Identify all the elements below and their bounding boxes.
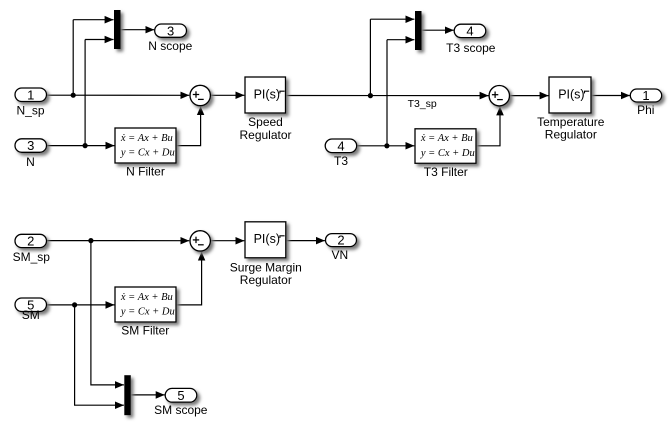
svg-text:Regulator: Regulator bbox=[545, 128, 597, 142]
svg-text:SM Filter: SM Filter bbox=[121, 324, 169, 338]
svg-text:PI(s): PI(s) bbox=[254, 87, 280, 101]
svg-text:T3: T3 bbox=[334, 154, 348, 168]
svg-text:y = Cx + Du: y = Cx + Du bbox=[120, 148, 175, 159]
svg-text:N scope: N scope bbox=[148, 39, 192, 53]
svg-text:T3 Filter: T3 Filter bbox=[424, 165, 468, 179]
svg-text:Regulator: Regulator bbox=[240, 273, 292, 287]
svg-text:N_sp: N_sp bbox=[16, 103, 44, 117]
svg-text:2: 2 bbox=[27, 234, 34, 249]
svg-text:SM_sp: SM_sp bbox=[13, 250, 51, 264]
svg-text:1: 1 bbox=[27, 87, 34, 102]
svg-text:ẋ = Ax + Bu: ẋ = Ax + Bu bbox=[420, 133, 473, 144]
svg-text:T3_sp: T3_sp bbox=[408, 98, 437, 110]
svg-text:VN: VN bbox=[331, 248, 348, 262]
svg-text:2: 2 bbox=[337, 233, 344, 248]
svg-text:y = Cx + Du: y = Cx + Du bbox=[420, 148, 475, 159]
svg-text:1: 1 bbox=[642, 88, 649, 103]
svg-text:T3 scope: T3 scope bbox=[446, 41, 496, 55]
svg-text:ẋ = Ax + Bu: ẋ = Ax + Bu bbox=[120, 292, 173, 303]
svg-text:ẋ = Ax + Bu: ẋ = Ax + Bu bbox=[120, 133, 173, 144]
svg-text:SM scope: SM scope bbox=[154, 403, 208, 417]
svg-text:N Filter: N Filter bbox=[126, 165, 165, 179]
svg-text:3: 3 bbox=[167, 23, 174, 38]
svg-text:4: 4 bbox=[466, 24, 473, 39]
svg-text:4: 4 bbox=[337, 138, 344, 153]
svg-text:N: N bbox=[26, 155, 35, 169]
svg-text:Regulator: Regulator bbox=[239, 128, 291, 142]
svg-text:Phi: Phi bbox=[637, 103, 654, 117]
svg-text:5: 5 bbox=[177, 388, 184, 403]
svg-text:SM: SM bbox=[22, 308, 40, 322]
svg-text:PI(s): PI(s) bbox=[254, 232, 280, 246]
svg-text:y = Cx + Du: y = Cx + Du bbox=[120, 306, 175, 317]
svg-text:3: 3 bbox=[27, 138, 34, 153]
svg-text:PI(s): PI(s) bbox=[558, 87, 584, 101]
